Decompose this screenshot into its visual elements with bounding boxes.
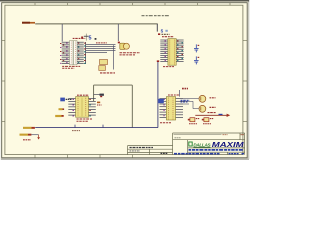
net name on arrow wire: [219, 113, 223, 115]
net label T1: [182, 88, 188, 90]
U2 right pin field: [176, 40, 183, 61]
capacitor C3 (right of U2): [194, 44, 199, 52]
U2 right pin marks: [177, 40, 183, 61]
logo DALLAS: [188, 142, 192, 147]
sheet background: [0, 0, 250, 162]
oscillator Y1: [118, 42, 120, 44]
blue net label right of U4: [181, 99, 190, 101]
ground: [38, 135, 40, 138]
net label P2: [20, 134, 29, 136]
transistor Q1: [199, 95, 206, 102]
U2 left pin numbers: [165, 40, 167, 61]
U1 right pin marks: [78, 43, 80, 64]
revision table left of title block: [128, 146, 173, 155]
net label VCC (left top): [22, 22, 30, 24]
U1 left pin numbers: [60, 43, 68, 64]
bus wires U1 to Y1: [86, 45, 116, 53]
wire U2 bottom to lower bus: [157, 62, 159, 128]
IC U3 refdes above: [77, 94, 89, 96]
IC U3 right pins: [89, 99, 96, 116]
IC U2 left pin field: [160, 40, 168, 61]
yellow label 2 left of U3: [55, 115, 61, 117]
IC U1 body B: [74, 41, 78, 65]
power +5V symbol near U1: [85, 34, 87, 41]
IC U1 left pin field: [62, 42, 70, 63]
IC U4 right pins: [176, 99, 183, 118]
wire drop from bus: [113, 45, 115, 69]
P2 text below: [23, 139, 31, 141]
resistor R1: [188, 119, 190, 121]
wire drop to Y1: [117, 24, 119, 41]
wire P2: [31, 134, 38, 136]
border frame inner: [5, 5, 243, 154]
transistor Q2: [199, 105, 206, 112]
IC U2 body: [168, 39, 176, 66]
zone ticks right: [243, 41, 247, 122]
revision table text: [130, 147, 154, 149]
net label blue box left of U4: [158, 99, 164, 103]
IC U3 body: [76, 97, 89, 118]
connector J1 column: [85, 42, 87, 64]
IC U4 body: [166, 97, 175, 120]
capacitor C1: [100, 60, 108, 65]
wire branch U3 right: [94, 94, 100, 96]
sheet note text top center: [142, 15, 171, 17]
IC U4 left pins: [160, 99, 167, 118]
svg-text:5: 5: [89, 36, 92, 42]
title text row B: [174, 153, 220, 155]
zone ticks top: [35, 3, 230, 5]
C1 C2 value text: [100, 72, 115, 74]
net label right of U3: [100, 94, 104, 96]
title row rules and small text: [174, 134, 222, 136]
wire net at U3 right going up and right: [93, 85, 95, 101]
U1 right pin field: [77, 42, 84, 63]
net label blue box left of U3: [60, 98, 65, 102]
title text row A: [189, 149, 244, 151]
label text right of U2 power: [162, 33, 170, 35]
diode D1 right of U3: [97, 102, 100, 104]
U1 part text below: [62, 65, 80, 67]
yellow label left of U3: [59, 108, 63, 110]
wire VCC horizontal: [35, 23, 158, 25]
junction stubs: [74, 125, 76, 128]
wire drop to U1: [61, 24, 63, 42]
U3 part text below: [77, 118, 93, 120]
resistor R2: [202, 119, 204, 121]
IC U3 left pins: [68, 99, 75, 116]
U4 part text below: [160, 122, 171, 124]
zone ticks left: [2, 41, 5, 122]
IC U4 refdes above: [168, 94, 180, 96]
wire drop to U2 power: [156, 24, 158, 32]
net name above bus: [96, 42, 107, 44]
U2 part text below: [163, 66, 174, 68]
IC U1 body A: [70, 41, 74, 65]
Q1 label: [210, 97, 216, 99]
wire U4 top: [179, 90, 181, 97]
Y1 value text: [120, 52, 141, 54]
wire to arrow right: [195, 114, 228, 116]
wires U4 to Q1 Q2: [183, 99, 199, 109]
svg-text:MAXIM: MAXIM: [212, 140, 245, 149]
pin tick near +5V: [81, 37, 83, 39]
border frame outer: [2, 3, 248, 158]
capacitor C2: [99, 66, 106, 71]
capacitor C4: [194, 56, 199, 64]
net label P1 (bottom left): [23, 127, 32, 129]
zone ticks bottom: [35, 155, 133, 158]
label above arrow wire: [208, 112, 217, 114]
svg-text:5: 5: [161, 28, 164, 33]
U2 refdes above: [162, 36, 174, 38]
net text under lower bus: [72, 130, 80, 132]
svg-text:DALLAS: DALLAS: [193, 142, 211, 147]
title block outline: [173, 133, 245, 155]
lower bus wire: [35, 127, 158, 129]
pin dot U2 power: [158, 33, 160, 35]
U1 refdes text above: [73, 37, 86, 39]
Q2 label: [210, 106, 216, 108]
